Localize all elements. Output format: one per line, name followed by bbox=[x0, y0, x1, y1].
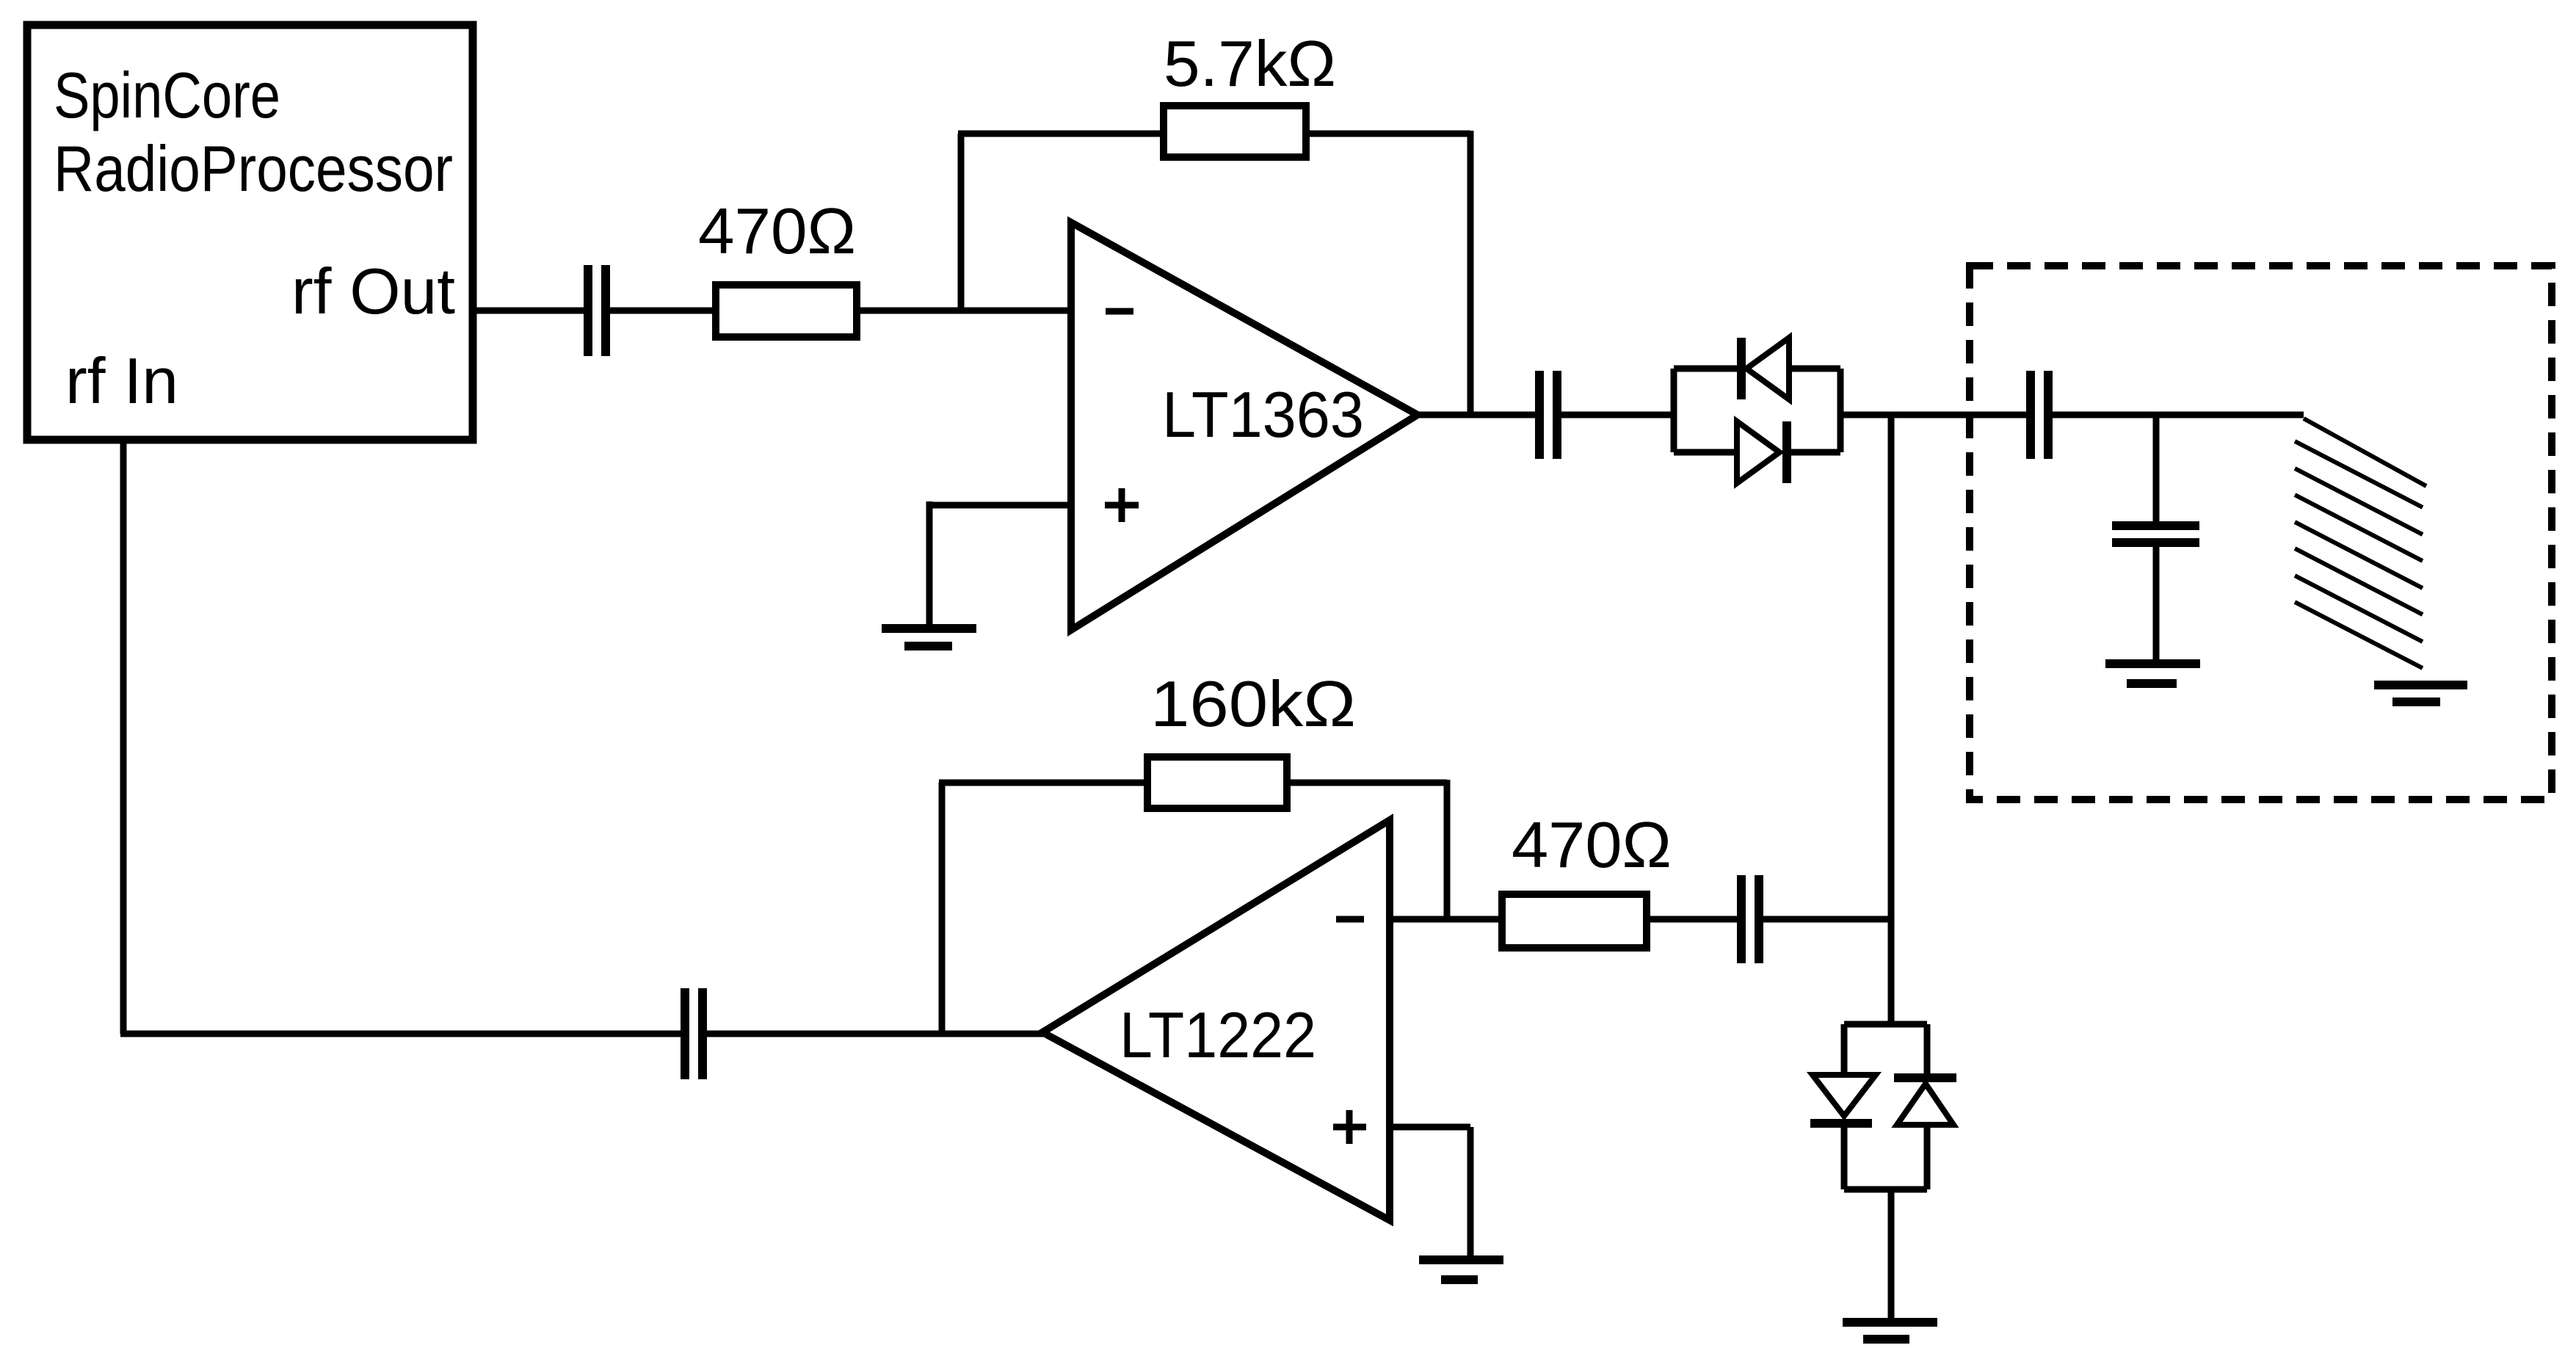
op-amp U2 LT1222 (points left) bbox=[1042, 820, 1390, 1220]
plus sign U2 bbox=[1333, 1124, 1366, 1131]
resistor R3 160kohm bbox=[1147, 757, 1287, 808]
wire R1 to op-amp minus bbox=[857, 308, 1071, 314]
wire plus input U1 bbox=[929, 502, 1071, 509]
SpinCore RadioProcessor box bbox=[27, 25, 473, 440]
wire feedback2 top left bbox=[939, 780, 1147, 786]
capacitor C5 bbox=[681, 988, 689, 1079]
wire rf In vertical bbox=[120, 440, 127, 1034]
capacitor C4 (to ground) bbox=[2112, 521, 2199, 530]
resistor R1 470ohm bbox=[716, 285, 857, 337]
coil L1 (hatched) bbox=[2295, 418, 2426, 668]
wire rf In horizontal to C5 bbox=[120, 1031, 681, 1037]
wire feedback top left bbox=[958, 131, 1164, 137]
dashed probe box bbox=[1970, 266, 2552, 800]
svg-text:RadioProcessor: RadioProcessor bbox=[54, 132, 453, 205]
diode D1 (points left) bbox=[1737, 338, 1746, 399]
crossed diode pair D1 D2 block bbox=[1671, 369, 1677, 452]
crossed diode pair D3 D4 block (vertical) bbox=[1844, 1021, 1927, 1028]
capacitor C3 bbox=[2026, 371, 2035, 459]
ground U1 bbox=[882, 624, 976, 633]
diode D3 (points down) bbox=[1813, 1075, 1876, 1116]
wire U2 minus output bbox=[1390, 916, 1502, 923]
wire U1 output bbox=[1418, 412, 1535, 418]
svg-text:LT1222: LT1222 bbox=[1120, 999, 1316, 1071]
svg-text:LT1363: LT1363 bbox=[1162, 378, 1364, 451]
wire R4 to C6 bbox=[1647, 916, 1737, 923]
wire feedback top right bbox=[1306, 131, 1470, 137]
capacitor C2 bbox=[1535, 371, 1544, 459]
wire feedback2 top right bbox=[1287, 780, 1447, 786]
diode D4 (points up) bbox=[1894, 1073, 1956, 1082]
wire ground drop U2 bbox=[1467, 1127, 1474, 1257]
capacitor C1 bbox=[584, 265, 592, 356]
wire drop to shield capacitor bbox=[2153, 415, 2160, 522]
minus sign U2 bbox=[1336, 916, 1364, 923]
wire diode block to ground bbox=[1888, 1189, 1895, 1320]
ground C4 bbox=[2105, 659, 2200, 668]
wire feedback right vertical bbox=[1467, 131, 1474, 415]
wire feedback2 right vertical bbox=[1444, 780, 1451, 919]
svg-text:470Ω: 470Ω bbox=[698, 195, 856, 267]
svg-text:rf Out: rf Out bbox=[291, 255, 455, 327]
wire C5 to op-amp U2 bbox=[707, 1031, 1046, 1037]
wire ground drop U1 bbox=[926, 501, 933, 626]
wire diodes to dashed box bbox=[1840, 412, 2026, 418]
wire C2 to diodes bbox=[1561, 412, 1674, 418]
wire feedback2 left vertical bbox=[939, 783, 946, 1034]
svg-text:470Ω: 470Ω bbox=[1512, 808, 1672, 881]
wire C1 to R1 bbox=[610, 308, 716, 314]
plus sign U1 bbox=[1105, 502, 1139, 509]
wire C4 to ground bbox=[2153, 546, 2160, 662]
resistor R2 5.7kohm bbox=[1164, 106, 1306, 157]
wire rf Out stub bbox=[473, 308, 584, 314]
svg-text:5.7kΩ: 5.7kΩ bbox=[1164, 27, 1336, 100]
diode D2 (points right) bbox=[1737, 421, 1779, 483]
wire feedback left vertical bbox=[958, 134, 965, 311]
svg-text:160kΩ: 160kΩ bbox=[1150, 667, 1356, 740]
ground diode block bbox=[1843, 1318, 1937, 1327]
op-amp U1 LT1363 bbox=[1071, 222, 1418, 630]
ground coil bbox=[2374, 681, 2467, 689]
wire U2 plus input bbox=[1390, 1124, 1470, 1131]
capacitor C6 bbox=[1737, 875, 1746, 963]
minus sign U1 bbox=[1106, 308, 1133, 315]
wire C6 to node A bbox=[1763, 916, 1891, 923]
wire C3 to coil bbox=[2053, 412, 2304, 418]
node A vertical drop bbox=[1888, 415, 1895, 1024]
ground U2 bbox=[1419, 1255, 1503, 1264]
svg-text:SpinCore: SpinCore bbox=[54, 59, 280, 131]
svg-text:rf In: rf In bbox=[65, 344, 178, 417]
resistor R4 470ohm bbox=[1502, 894, 1647, 948]
